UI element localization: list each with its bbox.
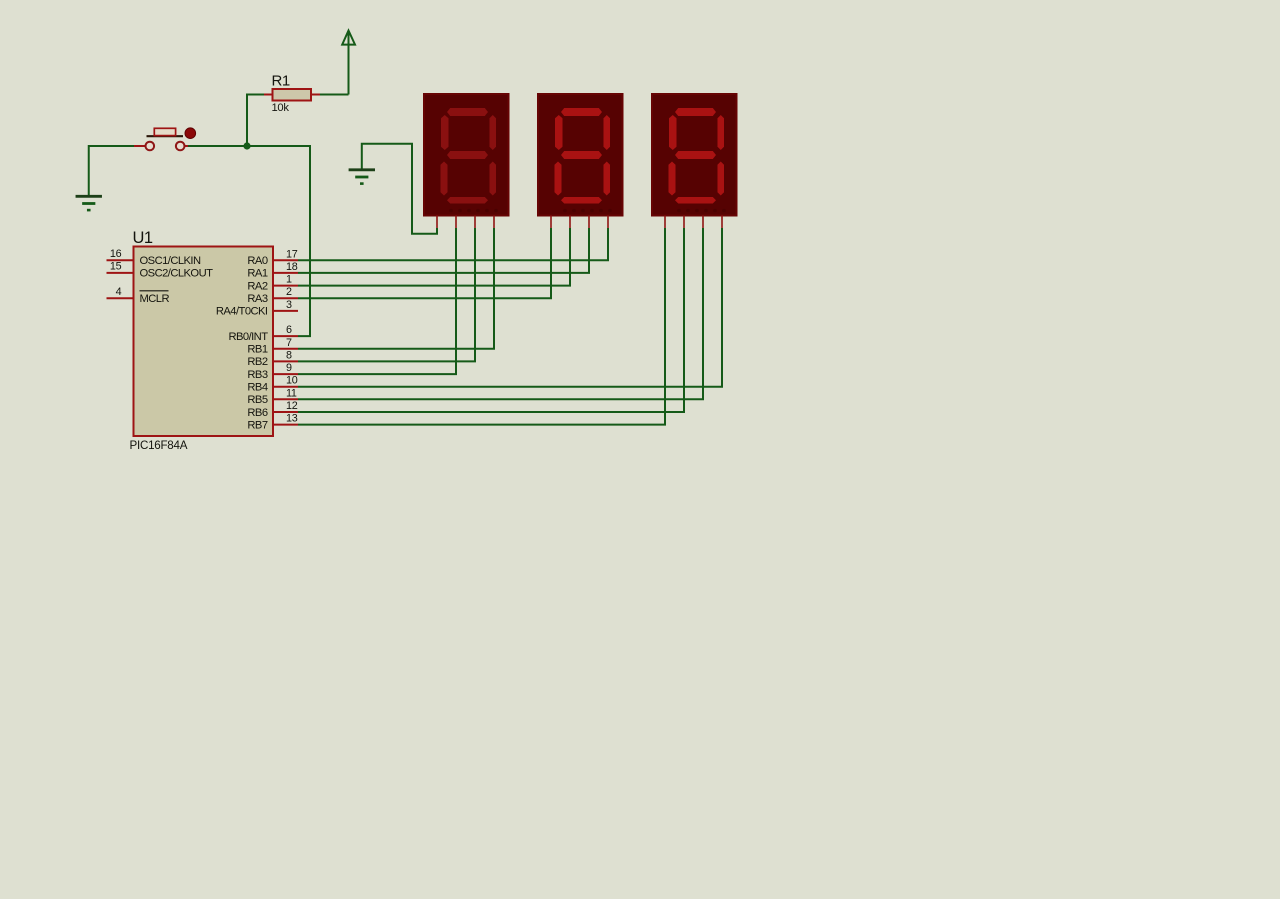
push button switch [134,128,196,150]
U1 pin 17 RA0 [247,248,298,267]
U1 pin 2 RA3 [247,286,298,305]
IC U1 PIC16F84A body [134,247,274,437]
wire RB2 to DS1 pin3 [298,228,475,361]
U1 pin 15 OSC2/CLKOUT [107,261,214,280]
U1 pin 8 RB2 [247,349,298,368]
7-segment display DS1 [424,94,509,228]
svg-text:RB5: RB5 [247,394,267,406]
svg-text:3: 3 [286,299,292,311]
U1 pin 16 OSC1/CLKIN [107,248,201,267]
wire DS1 pin1 to ground [362,144,437,234]
svg-text:MCLR: MCLR [140,293,170,305]
power symbol VCC [342,31,355,95]
wire RB3 to DS1 pin2 [298,228,456,374]
wire button to node A [188,145,247,147]
svg-text:11: 11 [286,387,297,399]
svg-text:8: 8 [286,349,292,361]
svg-text:RA1: RA1 [247,268,267,280]
wire RB1 to DS1 pin4 [298,228,494,349]
svg-text:RA3: RA3 [247,293,267,305]
svg-text:RA0: RA0 [247,255,267,267]
ground [349,170,375,184]
U1 pin 6 RB0/INT [228,324,298,343]
7-segment display DS3 [652,94,737,228]
svg-text:15: 15 [110,261,122,273]
svg-text:9: 9 [286,362,292,374]
svg-text:RB7: RB7 [247,419,267,431]
wire RB6 to DS3 pin2 [298,228,684,412]
svg-text:6: 6 [286,324,292,336]
ground [76,196,102,210]
svg-text:12: 12 [286,400,298,412]
7-segment display DS2 [538,94,623,228]
U1 pin 4 MCLR [107,286,170,305]
svg-text:R1: R1 [272,73,290,90]
svg-text:RB1: RB1 [247,344,267,356]
U1 pin 12 RB6 [247,400,298,419]
U1 pin 18 RA1 [247,261,298,280]
svg-text:13: 13 [286,413,298,425]
svg-text:16: 16 [110,248,122,260]
svg-text:2: 2 [286,286,292,298]
svg-text:RA4/T0CKI: RA4/T0CKI [216,306,268,318]
svg-text:17: 17 [286,248,298,260]
svg-text:U1: U1 [133,229,153,247]
wire RB5 to DS3 pin3 [298,228,703,399]
svg-text:RB2: RB2 [247,356,267,368]
svg-text:10k: 10k [272,102,290,114]
U1 pin 3 RA4/T0CKI [216,299,298,318]
U1 pin 1 RA2 [247,274,298,293]
svg-text:10: 10 [286,375,298,387]
svg-text:PIC16F84A: PIC16F84A [130,439,188,452]
svg-text:RB6: RB6 [247,407,267,419]
wire RB7 to DS3 pin1 [298,228,665,425]
wire RA3 to DS2 pin1 [298,228,551,298]
svg-text:1: 1 [286,274,292,286]
wire RA0 to DS2 pin4 [298,228,608,260]
wire power to R1 [320,94,349,96]
wire R1 to node A [247,95,264,147]
resistor R1 [264,73,320,115]
wire RB4 to DS3 pin4 [298,228,722,387]
svg-text:18: 18 [286,261,298,273]
U1 pin 7 RB1 [247,337,298,356]
wire node A to RB0 vertical [247,146,310,336]
U1 pin 9 RB3 [247,362,298,381]
svg-text:OSC2/CLKOUT: OSC2/CLKOUT [140,268,214,280]
svg-text:OSC1/CLKIN: OSC1/CLKIN [140,255,201,267]
wire button to ground [89,146,134,196]
node A junction [243,142,250,149]
svg-text:7: 7 [286,337,292,349]
svg-text:RA2: RA2 [247,280,267,292]
svg-text:RB0/INT: RB0/INT [228,331,268,343]
wire RA1 to DS2 pin3 [298,228,589,273]
wire RA2 to DS2 pin2 [298,228,570,286]
svg-text:4: 4 [116,286,122,298]
svg-text:RB3: RB3 [247,369,267,381]
U1 pin 13 RB7 [247,413,298,432]
U1 pin 11 RB5 [247,387,298,406]
U1 pin 10 RB4 [247,375,298,394]
svg-text:RB4: RB4 [247,382,267,394]
